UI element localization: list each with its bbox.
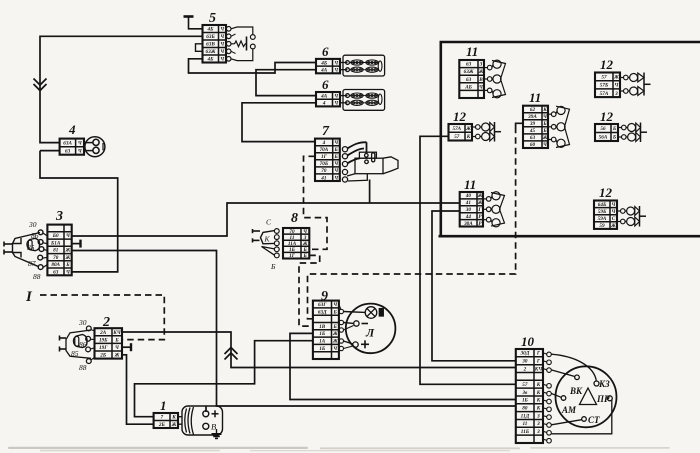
headlight body of component 9 bbox=[346, 304, 396, 354]
terminator stub on relay3 row2 bbox=[72, 240, 81, 248]
terminal block 12 (left middle) bbox=[449, 124, 473, 141]
svg-text:Ж: Ж bbox=[613, 74, 619, 80]
wire: headlight9 row5 to central switch row7 bbox=[290, 333, 516, 399]
svg-text:59А: 59А bbox=[598, 216, 607, 222]
svg-text:ПР: ПР bbox=[596, 394, 610, 404]
twist symbol on wire near block9 bbox=[225, 348, 238, 360]
svg-text:В: В bbox=[478, 77, 483, 83]
lamp pair 12 (left middle) bbox=[472, 123, 495, 132]
svg-text:45: 45 bbox=[529, 128, 536, 134]
wire: block5 row2 to lamp4 and relay3 chain (left loop) bbox=[40, 36, 203, 272]
svg-text:11: 11 bbox=[464, 177, 476, 192]
svg-text:63: 63 bbox=[53, 269, 59, 275]
terminal labels of component 2 bbox=[71, 318, 87, 372]
terminal block 12 (top right) bbox=[595, 73, 620, 98]
terminal block 4 bbox=[60, 139, 84, 155]
svg-text:I: I bbox=[25, 289, 33, 305]
svg-text:5: 5 bbox=[209, 11, 216, 26]
terminal block 5 bbox=[203, 25, 227, 63]
svg-text:АМ: АМ bbox=[561, 405, 577, 415]
svg-text:Б: Б bbox=[302, 247, 307, 253]
svg-text:КЧ: КЧ bbox=[534, 366, 544, 372]
svg-text:41: 41 bbox=[465, 200, 472, 206]
headlamp symbol 11 (top) bbox=[484, 60, 506, 98]
svg-text:1Б: 1Б bbox=[289, 247, 296, 253]
terminator stub on relay2 row3 bbox=[122, 343, 131, 351]
plus sign of component 1 bbox=[212, 410, 219, 417]
svg-text:2: 2 bbox=[523, 366, 527, 372]
svg-text:Б: Б bbox=[333, 309, 338, 315]
plus terminal of component 9 bbox=[353, 340, 369, 348]
svg-text:1Б: 1Б bbox=[522, 398, 529, 404]
svg-text:Зв: Зв bbox=[521, 390, 528, 396]
svg-text:63Б: 63Б bbox=[206, 34, 215, 40]
svg-text:4А: 4А bbox=[320, 68, 328, 74]
scan artifact: bottom edge smudge bbox=[8, 447, 670, 451]
relay body of component 2 bbox=[60, 326, 95, 364]
svg-text:Б: Б bbox=[65, 262, 70, 268]
heater module of component 6 (upper) bbox=[343, 55, 385, 76]
svg-text:1: 1 bbox=[160, 398, 167, 413]
terminal block 7 bbox=[315, 139, 340, 181]
svg-text:60: 60 bbox=[530, 142, 536, 148]
svg-text:12: 12 bbox=[599, 185, 613, 200]
svg-text:Ж: Ж bbox=[332, 331, 338, 337]
terminal block 12 (bottom right) bbox=[594, 201, 617, 229]
svg-text:4Б: 4Б bbox=[320, 60, 328, 66]
wire: relay2 row1 to central switch row3 bbox=[122, 332, 516, 368]
svg-text:Б: Б bbox=[334, 147, 339, 153]
svg-text:2А: 2А bbox=[99, 330, 107, 336]
svg-text:63Ж: 63Ж bbox=[206, 49, 216, 55]
svg-text:85: 85 bbox=[71, 349, 79, 358]
bar of lamp 12 (bottom right) bbox=[640, 206, 647, 227]
svg-text:Ж: Ж bbox=[477, 200, 483, 206]
terminal labels of component 3 bbox=[27, 220, 41, 281]
svg-text:63А: 63А bbox=[63, 140, 72, 146]
svg-text:Ж: Ж bbox=[65, 255, 71, 261]
svg-text:70А: 70А bbox=[320, 147, 329, 153]
terminal letters of component 8 bbox=[264, 218, 277, 272]
svg-text:Ж: Ж bbox=[610, 223, 616, 229]
bar of lamp 12 (left middle) bbox=[495, 122, 502, 142]
svg-text:57: 57 bbox=[522, 382, 528, 388]
svg-text:63: 63 bbox=[466, 77, 472, 83]
svg-text:КЧ: КЧ bbox=[112, 330, 122, 336]
svg-text:2Б: 2Б bbox=[158, 422, 166, 428]
relay body of component 8 bbox=[253, 229, 280, 258]
horn body of component 1 bbox=[178, 406, 223, 435]
wire: block6 lower row2 to block7 row1 bbox=[242, 103, 316, 142]
wire: block5 rows 3-4 left jumper bbox=[196, 44, 203, 52]
svg-text:Б1А: Б1А bbox=[50, 241, 61, 247]
svg-text:86: 86 bbox=[79, 340, 87, 349]
terminal block 9 bbox=[313, 301, 339, 359]
svg-text:70: 70 bbox=[53, 255, 59, 261]
svg-text:З: З bbox=[479, 62, 483, 68]
svg-text:С: С bbox=[612, 216, 616, 222]
lamp symbol in component 9 bbox=[365, 307, 383, 319]
dashed wire: headlight9 row3 to headlamp11 centre row3 bbox=[308, 123, 516, 318]
svg-text:63: 63 bbox=[530, 135, 536, 141]
svg-text:4: 4 bbox=[68, 122, 76, 137]
svg-text:57А: 57А bbox=[600, 91, 609, 97]
wire: switch7 tap to row2 junction bbox=[369, 180, 371, 204]
contact ST of component 10 bbox=[551, 417, 586, 425]
svg-text:Ж: Ж bbox=[114, 353, 120, 359]
switch body of component 7 bbox=[342, 142, 398, 182]
terminal block 6 (upper) bbox=[316, 59, 340, 73]
wire: relay3 row3 down to central switch row8 bbox=[72, 251, 516, 407]
relay body of component 3 bbox=[4, 230, 47, 270]
svg-text:Б: Б bbox=[114, 337, 119, 343]
wire: relay3 row1 to headlamp11 bottom row2 bbox=[72, 203, 460, 236]
svg-text:63: 63 bbox=[65, 148, 71, 154]
svg-text:1Б: 1Б bbox=[319, 331, 326, 337]
wire: trailer socket 12 to central switch row5 bbox=[420, 136, 516, 384]
svg-text:4Б: 4Б bbox=[207, 57, 215, 63]
svg-text:Л: Л bbox=[365, 326, 375, 340]
svg-text:Б: Б bbox=[542, 121, 547, 127]
svg-text:1Б: 1Б bbox=[319, 346, 326, 352]
lamp of component 4 bbox=[84, 137, 105, 157]
svg-text:12: 12 bbox=[600, 109, 614, 124]
svg-text:59Б: 59Б bbox=[598, 209, 607, 215]
dashed wire: relay8 row5 to headlight9 row4 bbox=[299, 255, 320, 326]
svg-text:40: 40 bbox=[465, 193, 472, 199]
svg-text:41: 41 bbox=[320, 175, 327, 181]
contact VK of component 10 bbox=[551, 370, 579, 380]
svg-text:ВК: ВК bbox=[569, 386, 583, 396]
switch dial of component 10 bbox=[556, 366, 617, 427]
triangle in component 10 bbox=[580, 388, 597, 405]
svg-text:11А: 11А bbox=[288, 241, 297, 247]
svg-text:4: 4 bbox=[322, 140, 326, 146]
svg-text:З: З bbox=[303, 235, 307, 241]
antenna/ground tap above component 5 bbox=[184, 17, 203, 29]
svg-text:88: 88 bbox=[79, 363, 87, 372]
svg-text:30Д: 30Д bbox=[520, 351, 530, 357]
svg-text:В: В bbox=[211, 422, 216, 432]
svg-text:70: 70 bbox=[321, 168, 327, 174]
svg-text:К: К bbox=[264, 235, 271, 244]
wire: block6 upper to heater stubs bbox=[340, 63, 348, 70]
svg-text:8: 8 bbox=[291, 211, 298, 226]
terminal block 3 bbox=[47, 225, 71, 276]
svg-text:11: 11 bbox=[290, 235, 295, 241]
svg-text:КЗ: КЗ bbox=[598, 379, 610, 389]
enclosure box frame bbox=[439, 42, 700, 238]
svg-text:11: 11 bbox=[522, 421, 527, 427]
svg-text:Б: Б bbox=[612, 135, 617, 141]
terminal block 8 bbox=[283, 228, 309, 259]
svg-text:70: 70 bbox=[289, 229, 295, 235]
ground symbol of component 1 bbox=[212, 429, 222, 438]
terminal circles of component 9 bbox=[339, 304, 365, 350]
svg-text:Б: Б bbox=[333, 324, 338, 330]
svg-text:11: 11 bbox=[466, 44, 478, 59]
svg-text:Б: Б bbox=[334, 154, 339, 160]
minus terminal of component 9 bbox=[354, 321, 368, 326]
svg-text:19Б: 19Б bbox=[99, 337, 108, 343]
svg-text:Б0: Б0 bbox=[52, 233, 59, 239]
svg-text:80А: 80А bbox=[51, 262, 60, 268]
svg-text:АБ: АБ bbox=[464, 84, 472, 90]
svg-text:Ж: Ж bbox=[302, 241, 308, 247]
svg-text:59: 59 bbox=[599, 223, 605, 229]
svg-text:39: 39 bbox=[529, 121, 536, 127]
wire: block6 upper row2 to block6 lower row1 bbox=[256, 70, 316, 96]
wire: block5 row5 to block6 upper row1 bbox=[189, 59, 317, 73]
svg-text:44: 44 bbox=[465, 214, 472, 220]
terminal block 12 (right middle) bbox=[595, 124, 618, 141]
svg-text:1А: 1А bbox=[319, 339, 326, 345]
wire: bottom feed to central switch row8 and horn plus bbox=[205, 406, 207, 412]
svg-text:12: 12 bbox=[600, 57, 614, 72]
svg-text:85: 85 bbox=[27, 243, 35, 252]
lamp pair 12 (right middle) bbox=[618, 123, 641, 132]
svg-text:6: 6 bbox=[322, 44, 329, 59]
svg-text:63: 63 bbox=[466, 62, 472, 68]
svg-text:86: 86 bbox=[31, 231, 39, 240]
svg-text:К: К bbox=[536, 390, 541, 396]
svg-text:6: 6 bbox=[322, 77, 329, 92]
svg-text:З: З bbox=[536, 421, 540, 427]
svg-text:57: 57 bbox=[454, 134, 460, 140]
svg-text:1В: 1В bbox=[319, 324, 326, 330]
svg-text:Ж: Ж bbox=[478, 69, 484, 75]
svg-text:З: З bbox=[614, 91, 618, 97]
svg-text:9: 9 bbox=[321, 289, 328, 304]
terminal block 11 (top) bbox=[459, 60, 484, 98]
svg-text:Ж: Ж bbox=[465, 126, 471, 132]
svg-text:К: К bbox=[171, 415, 176, 421]
wire: headlamp11 bottom row3 to central switch row2 bbox=[432, 211, 516, 361]
svg-text:К: К bbox=[542, 107, 547, 113]
bar of lamp 12 (top right) bbox=[644, 73, 651, 96]
svg-text:2Б: 2Б bbox=[99, 353, 107, 359]
svg-text:7: 7 bbox=[161, 415, 164, 421]
svg-text:30: 30 bbox=[521, 359, 528, 365]
svg-text:7: 7 bbox=[322, 124, 330, 139]
svg-text:К: К bbox=[536, 398, 541, 404]
svg-text:87: 87 bbox=[28, 259, 36, 268]
lamp pair 12 (top right) bbox=[620, 73, 644, 82]
svg-text:57А: 57А bbox=[452, 126, 461, 132]
resistor-switch unit of component 5 bbox=[226, 27, 255, 62]
svg-text:80: 80 bbox=[522, 406, 528, 412]
svg-text:4: 4 bbox=[322, 101, 326, 107]
svg-text:Б: Б bbox=[542, 128, 547, 134]
svg-text:З: З bbox=[536, 413, 540, 419]
svg-text:3: 3 bbox=[55, 209, 63, 224]
wire: solid stub into headlamp11 centre row3 bbox=[516, 123, 523, 127]
svg-text:12: 12 bbox=[453, 109, 467, 124]
headlamp symbol 11 (bottom) bbox=[483, 192, 505, 227]
svg-text:57Б: 57Б bbox=[600, 83, 609, 89]
svg-text:88: 88 bbox=[33, 272, 41, 281]
svg-text:62: 62 bbox=[530, 107, 536, 113]
svg-text:Б: Б bbox=[612, 126, 617, 132]
svg-text:З: З bbox=[536, 429, 540, 435]
wire: relay2 row4 to horn1 row2 bbox=[122, 355, 154, 424]
terminal circles of component 10 bbox=[543, 352, 551, 443]
svg-text:57: 57 bbox=[601, 74, 607, 80]
svg-text:Б: Б bbox=[302, 253, 307, 259]
svg-text:11Б: 11Б bbox=[521, 429, 530, 435]
svg-text:64Б: 64Б bbox=[598, 202, 607, 208]
svg-text:63В: 63В bbox=[206, 42, 215, 48]
svg-text:63Д: 63Д bbox=[318, 309, 327, 315]
terminal block 11 (centre) bbox=[523, 106, 548, 148]
svg-text:63Ж: 63Ж bbox=[464, 69, 474, 75]
svg-text:Ж: Ж bbox=[65, 248, 71, 254]
lamp pair 12 (bottom right) bbox=[617, 207, 640, 216]
svg-text:Б: Б bbox=[270, 262, 276, 271]
wire: block6 lower to heater stubs bbox=[340, 96, 348, 103]
svg-text:4Б: 4Б bbox=[207, 27, 215, 33]
dashed wire: switch7 row3 to relay8 row4 bbox=[304, 156, 328, 249]
svg-text:10: 10 bbox=[521, 334, 535, 349]
svg-text:К: К bbox=[536, 406, 541, 412]
terminal block 10 bbox=[516, 349, 543, 443]
svg-text:39А: 39А bbox=[527, 114, 537, 120]
terminal block 2 bbox=[95, 328, 123, 358]
heater module of component 6 (lower) bbox=[343, 90, 385, 111]
contact labels of component 10 bbox=[561, 379, 610, 425]
svg-text:К: К bbox=[536, 382, 541, 388]
svg-text:Ж: Ж bbox=[542, 135, 548, 141]
svg-text:81: 81 bbox=[53, 248, 59, 254]
dashed wire I to relay2 row2 bbox=[40, 295, 164, 340]
headlamp symbol 11 (centre) bbox=[548, 106, 570, 147]
terminal block 1 bbox=[154, 413, 178, 428]
svg-text:1Г: 1Г bbox=[289, 253, 296, 259]
terminal block 11 (bottom) bbox=[460, 192, 483, 227]
wire: horn1 row1 to headlight9 row6 bbox=[135, 341, 313, 417]
svg-text:70Б: 70Б bbox=[320, 161, 329, 167]
svg-text:30: 30 bbox=[465, 207, 472, 213]
svg-text:1Г: 1Г bbox=[321, 154, 328, 160]
svg-text:30: 30 bbox=[28, 220, 37, 229]
twist symbol on left vertical wire bbox=[34, 79, 47, 91]
svg-text:Ж: Ж bbox=[477, 193, 483, 199]
svg-text:11: 11 bbox=[529, 90, 541, 105]
svg-text:19Г: 19Г bbox=[99, 345, 108, 351]
contact AM of component 10 bbox=[551, 394, 566, 401]
svg-text:Ж: Ж bbox=[171, 422, 177, 428]
svg-text:2: 2 bbox=[102, 315, 110, 330]
svg-text:30: 30 bbox=[78, 318, 87, 327]
terminal block 6 (lower) bbox=[316, 92, 340, 106]
svg-text:СТ: СТ bbox=[588, 415, 600, 425]
svg-text:30А: 30А bbox=[463, 221, 473, 227]
svg-text:К: К bbox=[466, 134, 471, 140]
bar of lamp 12 (right middle) bbox=[641, 123, 648, 143]
svg-text:56: 56 bbox=[600, 126, 606, 132]
contact KZ of component 10 bbox=[551, 354, 599, 386]
contact PR of component 10 and wire to bottom terminal bbox=[552, 396, 613, 434]
svg-text:56А: 56А bbox=[599, 135, 608, 141]
svg-text:11Д: 11Д bbox=[521, 413, 530, 419]
svg-text:Ж: Ж bbox=[332, 339, 338, 345]
svg-text:4А: 4А bbox=[320, 93, 328, 99]
